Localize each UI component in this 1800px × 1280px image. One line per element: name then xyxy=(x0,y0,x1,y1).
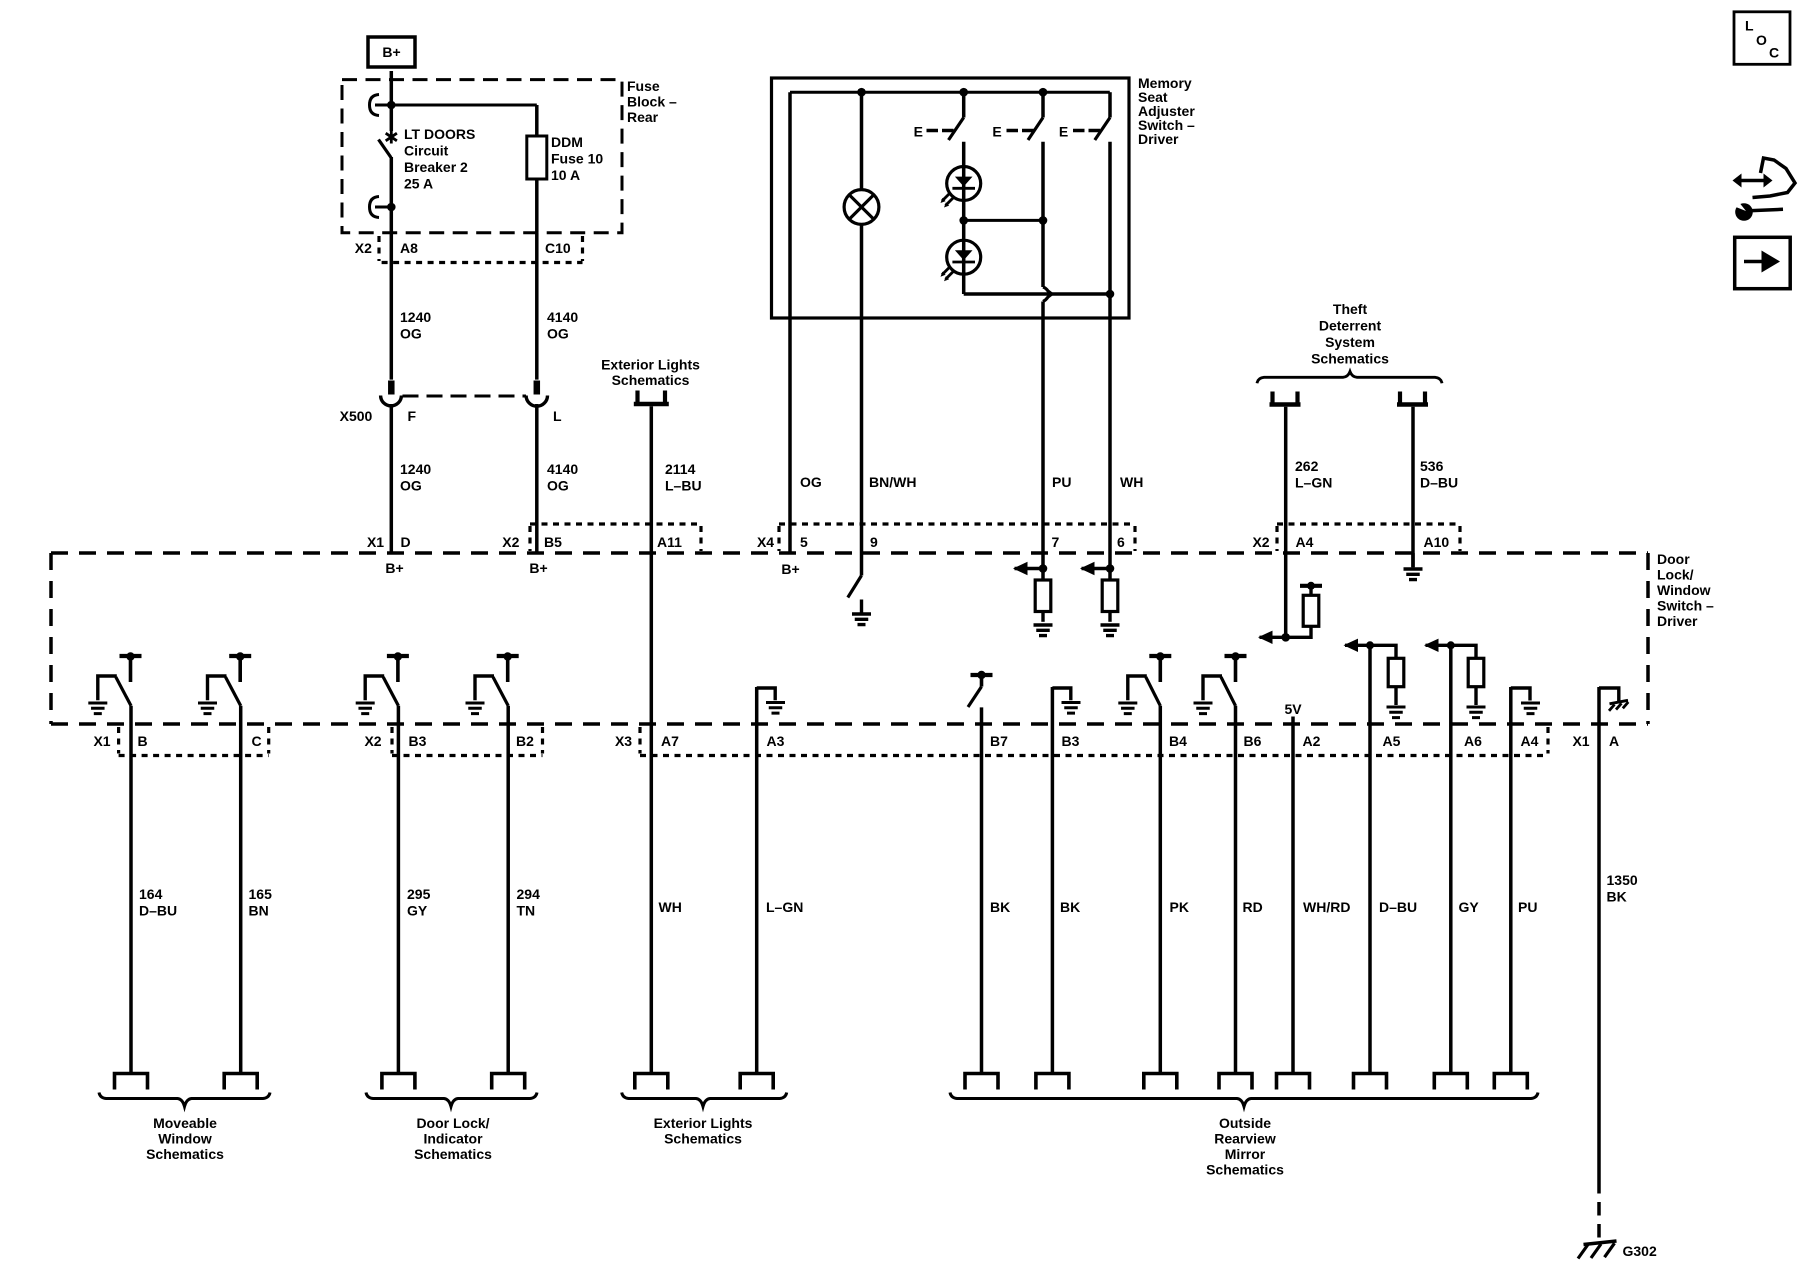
terminal connector pin B xyxy=(115,1074,148,1090)
wire circuit 262 L-GN xyxy=(1284,407,1288,638)
mirror switch B6 xyxy=(1203,652,1247,706)
chassis ground symbol at pin A xyxy=(1609,700,1628,711)
node junction dot pin 7 arrow xyxy=(1039,564,1048,573)
wire resistor A6 to ground xyxy=(1474,687,1477,705)
svg-text:1240OG: 1240OG xyxy=(400,461,431,494)
wire pin B2 down to terminal xyxy=(506,706,510,1074)
connector label X1 pin A xyxy=(1572,733,1619,749)
window switch B (moveable window) xyxy=(98,652,142,706)
chassis ground G302 xyxy=(1578,1241,1617,1259)
wire LED2 output elbow to pin 6 branch xyxy=(964,292,1110,296)
terminal connector pin B4 xyxy=(1144,1074,1177,1090)
svg-text:A8: A8 xyxy=(400,240,418,256)
icon next-page arrow box xyxy=(1735,237,1791,288)
wire resistor A5 to ground xyxy=(1394,687,1397,705)
svg-text:L: L xyxy=(1745,18,1754,34)
svg-text:A: A xyxy=(1609,733,1619,749)
svg-text:E: E xyxy=(1059,124,1068,140)
brace door lock indicator group xyxy=(366,1093,537,1107)
resistor A6 xyxy=(1468,658,1484,686)
svg-text:A4: A4 xyxy=(1521,733,1539,749)
svg-text:Exterior LightsSchematics: Exterior LightsSchematics xyxy=(654,1115,753,1147)
ground symbol pin 9 xyxy=(852,614,871,625)
svg-text:B5: B5 xyxy=(544,534,562,550)
svg-text:A6: A6 xyxy=(1464,733,1482,749)
off-page connector theft deterrent 536 xyxy=(1397,392,1428,405)
LED indicator 2 xyxy=(941,240,981,281)
svg-text:B+: B+ xyxy=(382,44,400,60)
terminal connector pin A6 xyxy=(1434,1074,1467,1090)
chassis ground elbow pin A xyxy=(1599,688,1619,701)
connector bottom strip X2 pins B3 B2 xyxy=(364,727,542,756)
wire pin A2 down to terminal xyxy=(1291,717,1295,1074)
connector bottom strip X3 pins A7 A3 and mirror pins B7 B3 B4 B6 A2 A5 A6 A4 xyxy=(615,727,1548,756)
in-line connector X500 cavity L xyxy=(526,381,547,407)
resistor pin 7 pull-down xyxy=(1035,580,1051,612)
svg-text:164D–BU: 164D–BU xyxy=(139,886,177,919)
svg-text:6: 6 xyxy=(1117,534,1125,550)
svg-text:X1: X1 xyxy=(367,534,384,550)
off-page connector to Exterior Lights Schematics xyxy=(634,391,669,405)
wire switch 3 down to pin 6 xyxy=(1108,142,1112,580)
svg-text:PU: PU xyxy=(1518,899,1537,915)
arrow output A5 with pull resistor xyxy=(1344,639,1397,659)
terminal connector pin A5 xyxy=(1354,1074,1387,1090)
resistor A5 xyxy=(1388,658,1404,686)
wire circuit 1240 OG upper segment xyxy=(390,233,394,380)
svg-text:1240OG: 1240OG xyxy=(400,309,431,342)
svg-text:A10: A10 xyxy=(1424,534,1450,550)
brace outside rearview mirror group xyxy=(950,1093,1538,1107)
wire B+ feed into fuse block xyxy=(390,71,394,105)
resistor pin 6 pull-down xyxy=(1102,580,1118,612)
svg-text:A5: A5 xyxy=(1383,733,1401,749)
ground elbow pin A3 xyxy=(757,688,776,700)
svg-text:BK: BK xyxy=(1060,899,1080,915)
svg-text:X2: X2 xyxy=(502,534,519,550)
brace to theft deterrent schematics xyxy=(1257,372,1442,384)
fuse block - rear (dashed component box) xyxy=(342,80,622,233)
node junction dot A6 arrow xyxy=(1447,641,1455,649)
connector X2 pins A4 A10 group xyxy=(1252,524,1460,551)
switch E contact 1 (memory set) xyxy=(914,92,964,140)
svg-text:B3: B3 xyxy=(1062,733,1080,749)
svg-text:295GY: 295GY xyxy=(407,886,431,919)
svg-text:PU: PU xyxy=(1052,474,1071,490)
wire 1350 BK dashed segment to G302 xyxy=(1597,1180,1601,1239)
svg-text:BN/WH: BN/WH xyxy=(869,474,916,490)
svg-text:B2: B2 xyxy=(516,733,534,749)
svg-text:X1: X1 xyxy=(93,733,110,749)
wire DDM fuse feed xyxy=(535,105,539,136)
svg-text:B+: B+ xyxy=(781,561,799,577)
ground symbol A6 xyxy=(1467,707,1486,718)
svg-text:BK: BK xyxy=(990,899,1010,915)
svg-text:DoorLock/WindowSwitch –Driver: DoorLock/WindowSwitch –Driver xyxy=(1657,551,1714,629)
door lock switch B3 xyxy=(365,652,409,706)
svg-text:X2: X2 xyxy=(1252,534,1269,550)
circuit breaker 2 LT DOORS 25A xyxy=(379,105,397,233)
ground symbol A5 xyxy=(1387,707,1406,718)
terminal connector pin B6 xyxy=(1219,1074,1252,1090)
wire circuit 536 D-BU xyxy=(1411,407,1415,568)
wire pin B3 mirror down to terminal xyxy=(1051,687,1055,1074)
svg-text:B3: B3 xyxy=(409,733,427,749)
svg-text:B7: B7 xyxy=(990,733,1008,749)
switch pin B7 (mirror fold) xyxy=(968,671,993,707)
arrow output A4 with pull-up resistor xyxy=(1258,626,1311,644)
wire lamp to pin 9 xyxy=(860,224,864,553)
wire pin A6 down to terminal xyxy=(1449,645,1453,1073)
connector X4 pins 5 9 7 6 group xyxy=(757,524,1135,551)
svg-text:B: B xyxy=(138,733,148,749)
ground symbol switch B2 xyxy=(466,703,485,714)
breaker bottom terminal hook xyxy=(370,197,396,218)
wire circuit 2114 L-BU xyxy=(650,406,654,1073)
svg-text:A4: A4 xyxy=(1296,534,1314,550)
wire resistor to ground pin 7 xyxy=(1041,612,1044,622)
svg-text:294TN: 294TN xyxy=(517,886,541,919)
svg-text:165BN: 165BN xyxy=(249,886,273,919)
svg-text:L: L xyxy=(553,408,562,424)
svg-text:262L–GN: 262L–GN xyxy=(1295,458,1332,491)
ground elbow pin B3 mirror xyxy=(1052,688,1070,700)
ground symbol switch B6 xyxy=(1194,703,1213,714)
ground symbol switch B xyxy=(88,703,107,714)
brace exterior lights group xyxy=(622,1093,787,1107)
svg-text:O: O xyxy=(1756,32,1767,48)
node junction dot bus / lamp branch xyxy=(857,88,866,97)
svg-text:OutsideRearviewMirrorSchematic: OutsideRearviewMirrorSchematics xyxy=(1206,1115,1284,1178)
svg-text:4140OG: 4140OG xyxy=(547,309,578,342)
wire resistor to ground pin 6 xyxy=(1108,612,1111,622)
svg-text:WH: WH xyxy=(1120,474,1143,490)
node junction dot pin 6 arrow xyxy=(1106,564,1115,573)
terminal connector pin A3 xyxy=(740,1074,773,1090)
terminal connector pin B3 mirror xyxy=(1036,1074,1069,1090)
svg-text:DDMFuse 1010 A: DDMFuse 1010 A xyxy=(551,134,603,183)
svg-text:A2: A2 xyxy=(1303,733,1321,749)
svg-text:E: E xyxy=(992,124,1001,140)
ground symbol A10 xyxy=(1404,553,1423,580)
wire pin B3 down to terminal xyxy=(397,706,401,1074)
wire pin A5 down to terminal xyxy=(1368,645,1372,1073)
ground symbol pin 7 xyxy=(1034,625,1053,636)
svg-text:OG: OG xyxy=(800,474,822,490)
resistor A4 pull-up xyxy=(1303,595,1319,626)
connector bottom strip X1 pins B C xyxy=(93,727,268,756)
svg-text:5V: 5V xyxy=(1284,701,1302,717)
svg-text:C10: C10 xyxy=(545,240,571,256)
power symbol B+ (battery feed box) xyxy=(368,37,415,67)
svg-text:C: C xyxy=(252,733,262,749)
svg-text:WH: WH xyxy=(659,899,682,915)
svg-text:X4: X4 xyxy=(757,534,774,550)
wire lamp feed xyxy=(860,92,864,189)
LED indicator 1 xyxy=(941,167,981,208)
svg-text:WH/RD: WH/RD xyxy=(1303,899,1350,915)
wire internal supply bus xyxy=(790,91,1110,94)
node junction dot bus / switch 1 branch xyxy=(959,88,968,97)
node junction dot A4 theft output xyxy=(1281,633,1290,642)
door lock switch B2 xyxy=(475,652,519,706)
ground symbol A4 mirror xyxy=(1521,703,1540,714)
terminal connector pin B2 xyxy=(492,1074,525,1090)
svg-text:Door Lock/IndicatorSchematics: Door Lock/IndicatorSchematics xyxy=(414,1115,492,1162)
ground symbol switch C xyxy=(198,703,217,714)
svg-text:X3: X3 xyxy=(615,733,632,749)
terminal connector pin A7 xyxy=(635,1074,668,1090)
wire switch 2 down to pin 7 with crossover hop xyxy=(1043,142,1052,580)
svg-text:MoveableWindowSchematics: MoveableWindowSchematics xyxy=(146,1115,224,1162)
wire branch to DDM fuse xyxy=(391,104,537,107)
wire pin A4 mirror down to terminal xyxy=(1509,687,1513,1074)
switch E contact 3 xyxy=(1059,92,1110,140)
svg-text:GY: GY xyxy=(1459,899,1480,915)
node junction dot A5 arrow xyxy=(1366,641,1374,649)
switch pin 9 to ground xyxy=(848,553,862,613)
wire memory switch output to pin 5 xyxy=(788,92,792,553)
arrow output A6 with pull resistor xyxy=(1424,639,1476,659)
off-page connector theft deterrent 262 xyxy=(1270,392,1301,405)
node junction dot on switch 2 branch xyxy=(1039,216,1048,225)
terminal connector pin C xyxy=(224,1074,257,1090)
terminal connector pin A4 mirror xyxy=(1494,1074,1527,1090)
svg-text:G302: G302 xyxy=(1623,1243,1657,1259)
wire pin B down to terminal xyxy=(129,706,133,1074)
svg-text:L–GN: L–GN xyxy=(766,899,803,915)
brace moveable window group xyxy=(99,1093,270,1107)
svg-text:TheftDeterrentSystemSchematics: TheftDeterrentSystemSchematics xyxy=(1311,301,1389,367)
svg-text:F: F xyxy=(408,408,417,424)
dashed connector tie line X500 xyxy=(403,395,527,398)
svg-text:7: 7 xyxy=(1052,534,1060,550)
svg-text:A3: A3 xyxy=(767,733,785,749)
svg-text:PK: PK xyxy=(1170,899,1189,915)
ground elbow pin A4 mirror xyxy=(1511,688,1530,701)
wire pin A3 down to terminal xyxy=(755,687,759,1074)
node junction dot LED1/LED2 tap xyxy=(959,216,968,225)
svg-text:LT DOORSCircuitBreaker 225 A: LT DOORSCircuitBreaker 225 A xyxy=(404,126,475,192)
ground symbol pin 6 xyxy=(1101,625,1120,636)
icon LOC legend box xyxy=(1734,12,1790,65)
window switch C xyxy=(208,652,252,706)
svg-text:B+: B+ xyxy=(529,560,547,576)
svg-text:C: C xyxy=(1769,44,1779,60)
wire circuit 1350 BK upper xyxy=(1597,687,1601,1180)
wire switch 1 to LED 1 xyxy=(962,142,966,294)
fuse DDM Fuse 10 10A xyxy=(527,136,547,179)
in-line connector X500 cavity F xyxy=(381,381,402,406)
terminal connector pin A2 xyxy=(1277,1074,1310,1090)
node junction dot bus / switch 2 branch xyxy=(1039,88,1048,97)
svg-text:1350BK: 1350BK xyxy=(1607,872,1638,905)
svg-text:X2: X2 xyxy=(355,240,372,256)
svg-text:4140OG: 4140OG xyxy=(547,461,578,494)
connector X2 pin A8 / C10 strip of fuse block xyxy=(355,236,583,263)
door lock/window switch - driver (large dashed box) xyxy=(51,553,1648,724)
wire pin B6 down to terminal xyxy=(1234,706,1238,1074)
arrow output pin 6 (mirror select) xyxy=(1080,562,1110,575)
mirror switch B4 xyxy=(1128,652,1172,706)
internal supply terminal above A4 resistor xyxy=(1300,582,1322,596)
svg-text:2114L–BU: 2114L–BU xyxy=(665,461,702,494)
terminal connector pin B7 xyxy=(965,1074,998,1090)
node junction dot elbow / pin 6 branch xyxy=(1106,290,1115,299)
svg-text:X1: X1 xyxy=(1572,733,1589,749)
wire circuit 4140 OG lower segment xyxy=(535,404,539,553)
svg-text:B6: B6 xyxy=(1244,733,1262,749)
wire circuit 4140 OG upper segment xyxy=(535,233,539,380)
lamp illumination bulb xyxy=(844,190,879,225)
icon tools double arrow xyxy=(1733,174,1773,188)
svg-text:D: D xyxy=(401,534,411,550)
ground symbol A3 xyxy=(766,703,785,714)
svg-text:X2: X2 xyxy=(364,733,381,749)
wire circuit 1240 OG lower segment xyxy=(390,404,394,553)
svg-text:9: 9 xyxy=(870,534,878,550)
icon tools wrench xyxy=(1730,196,1784,221)
svg-text:536D–BU: 536D–BU xyxy=(1420,458,1458,491)
connector label X1 pin D xyxy=(367,534,411,550)
svg-text:5: 5 xyxy=(800,534,808,550)
svg-text:FuseBlock –Rear: FuseBlock –Rear xyxy=(627,78,677,125)
wire pin C down to terminal xyxy=(239,706,243,1074)
arrow output pin 7 (mirror select) xyxy=(1013,562,1043,575)
wire pin B4 down to terminal xyxy=(1159,706,1163,1074)
svg-text:MemorySeatAdjusterSwitch –Driv: MemorySeatAdjusterSwitch –Driver xyxy=(1138,75,1195,147)
svg-text:A7: A7 xyxy=(661,733,679,749)
ground symbol switch B4 xyxy=(1118,703,1137,714)
svg-text:X500: X500 xyxy=(340,408,373,424)
icon tools bent arrow xyxy=(1753,158,1796,198)
wire tap across to switch 2 branch xyxy=(964,219,1043,222)
node junction dot at breaker top xyxy=(387,101,396,110)
svg-text:D–BU: D–BU xyxy=(1379,899,1417,915)
svg-text:B+: B+ xyxy=(385,560,403,576)
connector X2 pin B5 / A11 group xyxy=(502,524,701,551)
ground symbol B3 mirror xyxy=(1062,703,1081,714)
svg-text:RD: RD xyxy=(1243,899,1263,915)
svg-text:E: E xyxy=(914,124,923,140)
terminal connector pin B3 xyxy=(382,1074,415,1090)
wire fuse output to C10 xyxy=(535,179,539,233)
svg-text:Exterior LightsSchematics: Exterior LightsSchematics xyxy=(601,357,700,389)
ground symbol switch B3 xyxy=(356,703,375,714)
svg-text:B4: B4 xyxy=(1169,733,1187,749)
breaker top terminal hook xyxy=(370,95,392,116)
wire pin B7 down to terminal xyxy=(980,707,984,1073)
memory seat adjuster switch - driver (component box) xyxy=(772,78,1130,318)
switch E contact 2 xyxy=(992,92,1043,140)
svg-text:A11: A11 xyxy=(657,534,682,550)
